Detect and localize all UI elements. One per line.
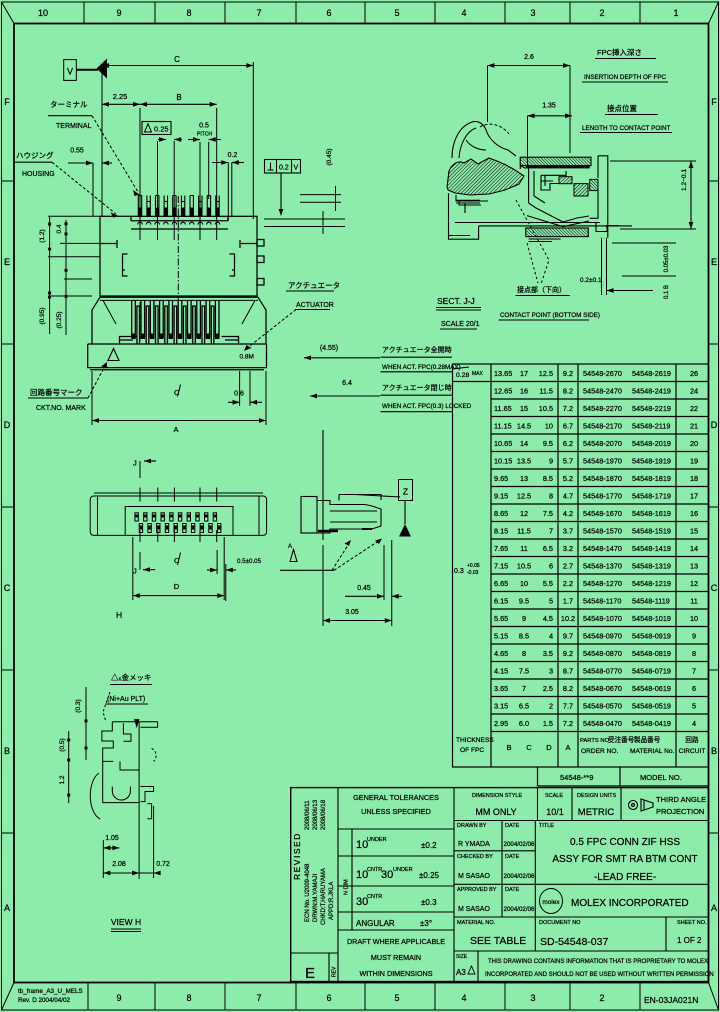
- right small dims: [612, 242, 676, 244]
- svg-text:11.65: 11.65: [494, 404, 512, 413]
- svg-text:11.15: 11.15: [494, 422, 512, 431]
- svg-text:2004/02/06: 2004/02/06: [504, 873, 536, 880]
- svg-text:9.5: 9.5: [543, 439, 553, 448]
- svg-text:INCORPORATED AND SHOULD NOT BE: INCORPORATED AND SHOULD NOT BE USED WITH…: [485, 972, 714, 978]
- svg-text:2008/06/13: 2008/06/13: [313, 799, 319, 830]
- svg-text:4: 4: [549, 632, 553, 641]
- svg-text:ECN No. U2009-4048: ECN No. U2009-4048: [305, 863, 311, 922]
- svg-text:1.5: 1.5: [543, 719, 553, 728]
- svg-text:6.2: 6.2: [563, 439, 573, 448]
- svg-text:WHEN ACT. FPC(0.3) LOCKED: WHEN ACT. FPC(0.3) LOCKED: [382, 403, 472, 410]
- svg-text:12: 12: [520, 509, 528, 518]
- basic dimension 0.25 with datum triangle: [142, 122, 171, 135]
- zone letters right: [711, 97, 718, 913]
- svg-text:10/1: 10/1: [546, 807, 564, 817]
- svg-text:9: 9: [116, 8, 121, 18]
- svg-text:54548-2270: 54548-2270: [583, 404, 622, 413]
- actuator lever outline (open): [452, 121, 516, 158]
- svg-text:CKT.NO. MARK: CKT.NO. MARK: [36, 405, 86, 412]
- svg-text:9.65: 9.65: [494, 474, 508, 483]
- svg-text:5.2: 5.2: [563, 474, 573, 483]
- svg-text:D: D: [546, 743, 552, 752]
- corner diagonal top-left: [2, 2, 15, 24]
- svg-text:0.55: 0.55: [70, 148, 84, 155]
- svg-text:54548-0570: 54548-0570: [583, 702, 622, 711]
- svg-text:CIRCUIT: CIRCUIT: [679, 748, 706, 755]
- svg-text:DATE: DATE: [505, 823, 520, 829]
- svg-text:MAX: MAX: [472, 371, 484, 377]
- svg-text:WHEN ACT. FPC(0.28MAX): WHEN ACT. FPC(0.28MAX): [382, 364, 461, 371]
- svg-text:3.2: 3.2: [563, 544, 573, 553]
- svg-text:MODEL NO.: MODEL NO.: [640, 773, 682, 782]
- svg-text:11.5: 11.5: [517, 527, 531, 536]
- svg-text:C: C: [174, 55, 180, 64]
- dim D: [132, 537, 134, 600]
- svg-text:UNDER: UNDER: [393, 867, 413, 873]
- svg-text:SHEET NO.: SHEET NO.: [677, 920, 707, 926]
- svg-text:6: 6: [692, 684, 696, 693]
- svg-text:5.5: 5.5: [543, 579, 553, 588]
- molex logo: [540, 889, 563, 914]
- svg-text:9.2: 9.2: [563, 649, 573, 658]
- svg-text:0.05±0.03: 0.05±0.03: [664, 245, 670, 272]
- svg-text:54548-2219: 54548-2219: [632, 404, 671, 413]
- svg-text:MUST REMAIN: MUST REMAIN: [371, 953, 421, 962]
- svg-text:10.15: 10.15: [494, 457, 512, 466]
- side view left tab: [301, 497, 317, 534]
- svg-text:4: 4: [461, 993, 466, 1003]
- svg-text:20: 20: [690, 439, 698, 448]
- svg-text:M SASAO: M SASAO: [458, 873, 490, 880]
- fpc tail ext lines: [601, 238, 603, 295]
- svg-text:SD-54548-037: SD-54548-037: [540, 936, 608, 948]
- svg-text:19: 19: [690, 457, 698, 466]
- svg-text:5: 5: [549, 597, 553, 606]
- svg-text:PITCH: PITCH: [197, 132, 212, 138]
- housing rear wall: [590, 156, 619, 238]
- svg-text:1.7: 1.7: [563, 597, 573, 606]
- svg-text:(0.25): (0.25): [56, 312, 63, 329]
- svg-text:6: 6: [326, 993, 331, 1003]
- svg-text:17: 17: [520, 369, 528, 378]
- svg-text:SEE TABLE: SEE TABLE: [470, 935, 526, 947]
- svg-text:DATE: DATE: [505, 887, 520, 893]
- svg-text:6.4: 6.4: [342, 380, 352, 387]
- svg-text:製品番号: 製品番号: [634, 735, 661, 744]
- svg-text:14: 14: [690, 544, 698, 553]
- svg-text:10: 10: [690, 614, 698, 623]
- svg-text:7: 7: [522, 684, 526, 693]
- svg-text:D: D: [174, 582, 180, 591]
- svg-text:H: H: [116, 610, 122, 620]
- svg-text:54548-0819: 54548-0819: [632, 649, 671, 658]
- svg-text:9: 9: [116, 993, 121, 1003]
- svg-text:54548-1219: 54548-1219: [632, 579, 671, 588]
- svg-text:10: 10: [545, 422, 553, 431]
- svg-text:8: 8: [692, 649, 696, 658]
- svg-text:6: 6: [326, 8, 331, 18]
- svg-text:54548-1619: 54548-1619: [632, 509, 671, 518]
- dimension 2.25: [102, 103, 140, 105]
- svg-text:ACTUATOR: ACTUATOR: [296, 302, 334, 309]
- svg-text:14: 14: [520, 439, 528, 448]
- plan view notch steps: [130, 216, 132, 221]
- svg-text:CNTR: CNTR: [367, 894, 382, 900]
- svg-text:54548-0870: 54548-0870: [583, 649, 622, 658]
- svg-text:GENERAL TOLERANCES: GENERAL TOLERANCES: [353, 793, 439, 802]
- baseline: [280, 569, 334, 571]
- svg-text:C: C: [711, 583, 718, 593]
- svg-text:3: 3: [530, 8, 535, 18]
- svg-text:Z: Z: [403, 487, 408, 497]
- svg-text:0.28: 0.28: [456, 372, 469, 379]
- svg-text:54548-0419: 54548-0419: [632, 719, 671, 728]
- svg-text:4: 4: [461, 8, 466, 18]
- svg-text:10.5: 10.5: [517, 562, 531, 571]
- svg-text:J: J: [133, 567, 137, 576]
- svg-text:3.5: 3.5: [543, 649, 553, 658]
- svg-text:8.2: 8.2: [563, 387, 573, 396]
- fitting nail right: [222, 337, 239, 344]
- svg-text:D: D: [711, 420, 718, 430]
- svg-text:WITHIN DIMENSIONS: WITHIN DIMENSIONS: [359, 969, 432, 978]
- svg-text:9.7: 9.7: [563, 632, 573, 641]
- svg-text:9: 9: [692, 632, 696, 641]
- svg-text:N DIM: N DIM: [344, 879, 350, 895]
- extension lines through pins: [140, 108, 217, 305]
- svg-text:54548-1670: 54548-1670: [583, 509, 622, 518]
- svg-text:54548-1419: 54548-1419: [632, 544, 671, 553]
- svg-text:16: 16: [690, 509, 698, 518]
- svg-text:18: 18: [690, 474, 698, 483]
- svg-text:54548-2419: 54548-2419: [632, 387, 671, 396]
- svg-text:14.5: 14.5: [517, 422, 531, 431]
- svg-text:DESIGN UNITS: DESIGN UNITS: [577, 793, 616, 799]
- front view flange: [88, 344, 267, 368]
- svg-text:7: 7: [256, 993, 261, 1003]
- svg-text:E: E: [305, 965, 315, 982]
- dimension (0.45) pin tails: [300, 186, 341, 211]
- actuator hatched section: [447, 158, 524, 195]
- inner ear details: [100, 240, 257, 248]
- svg-text:B: B: [4, 746, 10, 756]
- svg-text:+0.05: +0.05: [467, 563, 480, 569]
- svg-text:2008/06/11: 2008/06/11: [305, 800, 311, 830]
- svg-text:THICKNESS: THICKNESS: [456, 737, 494, 744]
- svg-text:1.2−0.1: 1.2−0.1: [681, 169, 688, 191]
- svg-text:54548-1970: 54548-1970: [583, 457, 622, 466]
- svg-text:F: F: [4, 97, 10, 107]
- svg-text:12.65: 12.65: [494, 387, 512, 396]
- svg-text:F: F: [711, 97, 717, 107]
- svg-text:(0.3): (0.3): [75, 699, 82, 712]
- svg-text:3: 3: [549, 667, 553, 676]
- svg-text:0.5: 0.5: [199, 123, 209, 130]
- svg-text:±0.2: ±0.2: [421, 841, 437, 850]
- bottom view extension ticks: [140, 488, 217, 543]
- svg-text:8: 8: [186, 8, 191, 18]
- svg-text:REV: REV: [332, 966, 338, 977]
- svg-text:22: 22: [690, 404, 698, 413]
- svg-text:回路番号マーク: 回路番号マーク: [30, 387, 83, 397]
- svg-text:2.5: 2.5: [543, 684, 553, 693]
- svg-text:9: 9: [549, 457, 553, 466]
- terminal hatched blocks: [559, 177, 572, 184]
- svg-text:4.5: 4.5: [543, 614, 553, 623]
- svg-text:54548-2170: 54548-2170: [583, 422, 622, 431]
- svg-text:A: A: [4, 903, 10, 913]
- corner diagonal top-right: [709, 2, 719, 24]
- svg-text:3: 3: [530, 993, 535, 1003]
- svg-text:THIRD ANGLE: THIRD ANGLE: [656, 795, 706, 804]
- svg-text:54548-1170: 54548-1170: [583, 597, 621, 606]
- svg-text:24: 24: [690, 387, 698, 396]
- svg-text:0.72: 0.72: [156, 861, 170, 868]
- svg-text:54548-2070: 54548-2070: [583, 439, 622, 448]
- svg-text:54548-0770: 54548-0770: [583, 667, 622, 676]
- svg-text:0.2: 0.2: [279, 165, 289, 172]
- svg-text:PARTS NO: PARTS NO: [580, 738, 610, 744]
- svg-text:CHECKED BY: CHECKED BY: [457, 854, 493, 860]
- svg-text:2.08: 2.08: [112, 861, 126, 868]
- svg-text:E: E: [4, 257, 10, 267]
- svg-text:1: 1: [673, 8, 678, 18]
- svg-text:7: 7: [549, 527, 553, 536]
- dim A: [91, 371, 93, 425]
- svg-text:DOCUMENT NO: DOCUMENT NO: [539, 920, 581, 926]
- svg-text:C: C: [526, 743, 532, 752]
- svg-text:Rev. D 2004/04/02: Rev. D 2004/04/02: [18, 997, 71, 1004]
- svg-text:UNLESS SPECIFIED: UNLESS SPECIFIED: [361, 807, 431, 816]
- housing cavity outlines: [520, 157, 589, 227]
- svg-text:B: B: [506, 743, 511, 752]
- svg-text:12: 12: [690, 579, 698, 588]
- svg-text:SIZE: SIZE: [456, 954, 468, 960]
- svg-text:0.8M: 0.8M: [240, 354, 254, 361]
- view H profile: [90, 722, 157, 879]
- svg-text:C: C: [4, 583, 11, 593]
- svg-text:13.5: 13.5: [517, 457, 531, 466]
- svg-text:4.65: 4.65: [494, 649, 508, 658]
- svg-text:1.2: 1.2: [59, 775, 66, 784]
- svg-text:△₆金メッキ: △₆金メッキ: [111, 672, 152, 682]
- svg-text:0.5 FPC CONN ZIF HSS: 0.5 FPC CONN ZIF HSS: [570, 837, 680, 848]
- zone numbers top: [38, 8, 679, 18]
- front view outline: [92, 297, 266, 344]
- svg-text:8.15: 8.15: [494, 527, 508, 536]
- svg-text:54548-1770: 54548-1770: [583, 492, 622, 501]
- svg-text:TITLE: TITLE: [539, 823, 554, 829]
- svg-text:12.5: 12.5: [517, 492, 531, 501]
- svg-text:(4.55): (4.55): [320, 345, 338, 352]
- svg-text:1.35: 1.35: [542, 103, 556, 110]
- svg-text:6.15: 6.15: [494, 597, 508, 606]
- svg-text:10: 10: [38, 8, 48, 18]
- svg-text:54548-1019: 54548-1019: [632, 614, 671, 623]
- left dimension chains: [48, 216, 100, 335]
- svg-text:APPROVED BY: APPROVED BY: [457, 887, 497, 893]
- svg-text:4.7: 4.7: [563, 492, 573, 501]
- svg-text:(Ni+Au PLT): (Ni+Au PLT): [107, 696, 145, 703]
- svg-text:2: 2: [599, 8, 604, 18]
- svg-text:8: 8: [549, 492, 553, 501]
- svg-text:0.2±0.1: 0.2±0.1: [580, 277, 602, 284]
- svg-text:1 OF 2: 1 OF 2: [677, 936, 702, 945]
- svg-text:9: 9: [522, 614, 526, 623]
- svg-text:2.95: 2.95: [494, 719, 508, 728]
- svg-text:SCALE: SCALE: [545, 793, 563, 799]
- svg-text:6.5: 6.5: [519, 702, 529, 711]
- svg-text:ASSY FOR SMT RA BTM CONT: ASSY FOR SMT RA BTM CONT: [552, 854, 697, 865]
- svg-text:VIEW H: VIEW H: [111, 917, 141, 927]
- svg-text:54548-1119: 54548-1119: [632, 597, 670, 606]
- svg-text:9.2: 9.2: [563, 369, 573, 378]
- datum A triangle: [290, 550, 297, 562]
- svg-text:54548-2019: 54548-2019: [632, 439, 671, 448]
- svg-text:6.7: 6.7: [563, 422, 573, 431]
- geometric tolerance frame 0.2 V: [265, 160, 301, 214]
- inner bracket marks: [123, 254, 128, 276]
- svg-text:J: J: [133, 459, 137, 468]
- svg-text:54548-0970: 54548-0970: [583, 632, 622, 641]
- svg-text:54548-1270: 54548-1270: [583, 579, 622, 588]
- svg-text:0.45: 0.45: [357, 585, 371, 592]
- svg-text:アクチュエータ閉じ時: アクチュエータ閉じ時: [382, 383, 452, 392]
- svg-text:MOLEX INCORPORATED: MOLEX INCORPORATED: [571, 898, 689, 909]
- svg-text:CNTR: CNTR: [367, 867, 382, 873]
- left dim chain of view H: [69, 687, 86, 803]
- svg-text:10.2: 10.2: [561, 614, 575, 623]
- svg-text:8.65: 8.65: [494, 509, 508, 518]
- svg-text:6.5: 6.5: [543, 544, 553, 553]
- svg-text:OF FPC: OF FPC: [460, 747, 484, 754]
- svg-text:UNDER: UNDER: [367, 837, 387, 843]
- svg-text:接点位置: 接点位置: [607, 103, 637, 113]
- svg-text:3.05: 3.05: [345, 609, 359, 616]
- actuator hinge bits: [456, 195, 488, 205]
- svg-text:16: 16: [520, 387, 528, 396]
- svg-text:THIS DRAWING CONTAINS INFORMAT: THIS DRAWING CONTAINS INFORMATION THAT I…: [488, 959, 708, 965]
- svg-text:M SASAO: M SASAO: [458, 906, 490, 913]
- svg-text:26: 26: [690, 369, 698, 378]
- left zone dividers: [2, 180, 15, 182]
- svg-text:2.7: 2.7: [563, 562, 573, 571]
- svg-text:54548-1819: 54548-1819: [632, 474, 671, 483]
- top zone strip dividers: [83, 2, 85, 24]
- svg-text:D: D: [4, 420, 11, 430]
- svg-text:54548-2619: 54548-2619: [632, 369, 671, 378]
- svg-text:13: 13: [690, 562, 698, 571]
- dashed leader to view H: [103, 692, 110, 722]
- zone numbers bottom: [116, 993, 604, 1003]
- svg-text:6.65: 6.65: [494, 579, 508, 588]
- svg-text:17: 17: [690, 492, 698, 501]
- svg-text:APPD:R.JKLA: APPD:R.JKLA: [329, 882, 335, 920]
- svg-text:5.65: 5.65: [494, 614, 508, 623]
- section flag V: [64, 60, 77, 81]
- svg-text:±0.3: ±0.3: [421, 898, 437, 907]
- Z detail indicator: [399, 480, 413, 501]
- svg-text:5: 5: [394, 8, 399, 18]
- svg-text:(0.45): (0.45): [326, 149, 333, 166]
- svg-text:EN-03JA021N: EN-03JA021N: [644, 995, 698, 1005]
- svg-text:54548-**9: 54548-**9: [560, 773, 593, 782]
- svg-text:回路: 回路: [685, 735, 699, 744]
- svg-text:54548-1470: 54548-1470: [583, 544, 622, 553]
- svg-text:A: A: [711, 903, 717, 913]
- dimension 0.25 arrows: [158, 139, 166, 141]
- bottom zone strip dividers: [87, 983, 89, 1011]
- svg-text:2.25: 2.25: [113, 92, 128, 101]
- svg-text:A: A: [173, 425, 178, 434]
- plan view centerline: [177, 196, 179, 305]
- svg-text:LENGTH TO CONTACT POINT: LENGTH TO CONTACT POINT: [582, 125, 671, 132]
- svg-text:21: 21: [690, 422, 698, 431]
- svg-text:DATE: DATE: [505, 854, 520, 860]
- svg-text:10.65: 10.65: [494, 439, 512, 448]
- svg-text:54548-0919: 54548-0919: [632, 632, 671, 641]
- svg-text:54548-0470: 54548-0470: [583, 719, 622, 728]
- revision block (rotated texts): [292, 799, 335, 925]
- svg-text:受注番号: 受注番号: [608, 735, 635, 744]
- third angle projection symbol: [629, 799, 654, 811]
- svg-text:7: 7: [692, 667, 696, 676]
- svg-text:4: 4: [692, 719, 696, 728]
- dimension C: [252, 62, 254, 219]
- svg-text:tb_frame_A3_U_MELS: tb_frame_A3_U_MELS: [18, 988, 83, 995]
- svg-text:3.15: 3.15: [494, 702, 508, 711]
- svg-text:30: 30: [381, 869, 393, 881]
- svg-text:8: 8: [522, 649, 526, 658]
- svg-text:(0.5): (0.5): [59, 738, 66, 751]
- circuit mark triangle: [108, 349, 119, 361]
- svg-text:DRAFT WHERE APPLICABLE: DRAFT WHERE APPLICABLE: [347, 937, 445, 946]
- svg-text:DIMENSION STYLE: DIMENSION STYLE: [472, 793, 522, 799]
- svg-text:DRAWN BY: DRAWN BY: [457, 823, 487, 829]
- svg-text:6.0: 6.0: [519, 719, 529, 728]
- svg-text:PROJECTION: PROJECTION: [656, 807, 704, 816]
- svg-text:MATERIAL NO.: MATERIAL NO.: [457, 920, 496, 926]
- svg-text:A: A: [288, 544, 292, 550]
- svg-text:0.25: 0.25: [154, 125, 169, 134]
- svg-text:54548-0719: 54548-0719: [632, 667, 671, 676]
- svg-text:7.5: 7.5: [543, 509, 553, 518]
- svg-text:7.5: 7.5: [519, 667, 529, 676]
- dashed leaders: [332, 542, 350, 570]
- svg-text:54548-1519: 54548-1519: [632, 527, 671, 536]
- svg-text:0.4: 0.4: [56, 224, 63, 233]
- svg-text:接点部（下向）: 接点部（下向）: [517, 285, 566, 294]
- svg-text:ターミナル: ターミナル: [50, 100, 88, 109]
- svg-text:A: A: [565, 743, 570, 752]
- svg-text:11: 11: [690, 597, 698, 606]
- svg-text:FPC挿入深さ: FPC挿入深さ: [597, 47, 642, 57]
- svg-text:13.65: 13.65: [494, 369, 512, 378]
- svg-text:54548-1070: 54548-1070: [583, 614, 622, 623]
- corner diagonal bottom-left: [2, 983, 15, 1011]
- svg-text:54548-2470: 54548-2470: [583, 387, 622, 396]
- svg-text:DRWN:M.YAMAJI: DRWN:M.YAMAJI: [313, 874, 319, 922]
- svg-text:54548-1919: 54548-1919: [632, 457, 671, 466]
- parts table: [453, 364, 709, 786]
- svg-text:4.2: 4.2: [563, 509, 573, 518]
- svg-text:2008/06/18: 2008/06/18: [321, 799, 327, 830]
- svg-text:7: 7: [256, 8, 261, 18]
- svg-text:54548-2670: 54548-2670: [583, 369, 622, 378]
- svg-text:7.65: 7.65: [494, 544, 508, 553]
- svg-text:2004/02/06: 2004/02/06: [504, 906, 536, 913]
- svg-text:54548-0619: 54548-0619: [632, 684, 671, 693]
